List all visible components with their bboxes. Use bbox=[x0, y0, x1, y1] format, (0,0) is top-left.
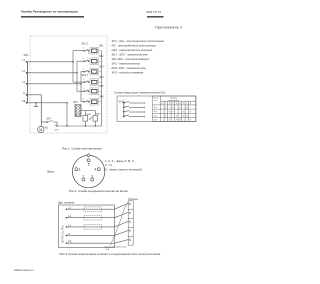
terminal L1 bbox=[22, 59, 27, 63]
node joints bbox=[35, 102, 96, 127]
switch SK5 bbox=[83, 88, 89, 92]
breaker QF1 bbox=[84, 207, 102, 212]
svg-text:1: 1 bbox=[83, 69, 85, 71]
svg-text:M: M bbox=[39, 128, 42, 132]
svg-text:3: 3 bbox=[88, 53, 90, 55]
svg-text:L1: L1 bbox=[22, 59, 25, 62]
plug body line bbox=[27, 62, 29, 104]
switch SK3 bbox=[83, 69, 89, 73]
wire phase L2 bbox=[27, 72, 78, 74]
switch SK1 bbox=[82, 43, 91, 55]
switch SK2 bbox=[83, 58, 89, 62]
svg-text:4: 4 bbox=[94, 168, 96, 172]
feeder wire N bbox=[67, 231, 129, 236]
terminal L3 bbox=[22, 81, 27, 85]
panel box bbox=[59, 205, 115, 248]
svg-text:1: 1 bbox=[83, 88, 85, 90]
svg-text:+: + bbox=[172, 110, 174, 113]
SA1 contact 1 bbox=[123, 102, 144, 104]
svg-text:Рис.3 Схема подключения розетк: Рис.3 Схема подключения розетки к стацио… bbox=[60, 252, 161, 256]
svg-text:Розетка: Розетка bbox=[128, 197, 138, 201]
feeder wire L2 bbox=[67, 212, 129, 217]
feeder wire L3 bbox=[67, 221, 129, 227]
wire neutral N bbox=[27, 95, 42, 127]
svg-text:1: 1 bbox=[79, 168, 81, 172]
terminal N bbox=[23, 92, 27, 96]
svg-text:Щит питания: Щит питания bbox=[58, 200, 75, 204]
svg-text:+: + bbox=[176, 115, 178, 118]
svg-text:+: + bbox=[190, 110, 192, 113]
capacitor KM2 bbox=[89, 111, 101, 126]
plug pin 1 bbox=[75, 168, 81, 172]
heater block EK1 bbox=[88, 44, 105, 54]
ground PE bbox=[34, 103, 39, 107]
svg-text:5х4: 5х4 bbox=[106, 249, 110, 251]
svg-text:3: 3 bbox=[91, 174, 93, 178]
svg-text:ХР3 - колодка клеммная: ХР3 - колодка клеммная bbox=[111, 71, 144, 75]
SA1 contact 4 bbox=[123, 115, 144, 117]
heater block EK3 bbox=[88, 65, 105, 75]
svg-text:положений: положений bbox=[169, 99, 179, 102]
socket strip bbox=[128, 201, 133, 245]
svg-text:ЩРН-П-12, IP31: ЩРН-П-12, IP31 bbox=[62, 225, 65, 243]
svg-text:Схема коммутации переключателя: Схема коммутации переключателя SA1 bbox=[114, 91, 166, 95]
switch SK6 bbox=[83, 99, 89, 103]
svg-text:1, 2, 3 - фазы А, В, С;: 1, 2, 3 - фазы А, В, С; bbox=[105, 159, 135, 163]
svg-text:5: 5 bbox=[88, 162, 90, 166]
svg-text:PE: PE bbox=[22, 100, 26, 103]
svg-text:5 - земля (желто-зеленый): 5 - земля (желто-зеленый) bbox=[105, 168, 142, 172]
breaker QF2 bbox=[84, 215, 102, 220]
svg-text:ЭК1-ЭК4 - электроконфорки: ЭК1-ЭК4 - электроконфорки bbox=[112, 57, 150, 61]
bus phase B vertical bbox=[77, 61, 84, 91]
table header bbox=[169, 98, 179, 102]
svg-text:L3: L3 bbox=[22, 81, 25, 84]
heater block EK5 bbox=[88, 85, 105, 95]
enclosure dashed boundary bbox=[30, 36, 107, 133]
switch SK4 bbox=[82, 74, 90, 83]
wire PE down bbox=[27, 102, 68, 104]
svg-text:Рис.1. Схема электрическая: Рис.1. Схема электрическая bbox=[62, 147, 102, 151]
svg-text:1: 1 bbox=[83, 99, 85, 101]
plug pin 5 bbox=[87, 159, 90, 167]
panel terminal N bbox=[66, 233, 71, 236]
junction dots phases bbox=[72, 61, 81, 84]
right return bus bbox=[57, 51, 102, 126]
bus phase A vertical bbox=[73, 51, 84, 82]
svg-text:+: + bbox=[165, 106, 167, 109]
terminal L2 bbox=[22, 70, 27, 74]
capacitor KM1 bbox=[83, 111, 92, 126]
header rule right bbox=[147, 16, 164, 18]
svg-text:М1 - центробежный вентилятор: М1 - центробежный вентилятор bbox=[112, 44, 157, 48]
wire cap top link bbox=[81, 110, 95, 112]
svg-text:+: + bbox=[186, 115, 188, 118]
SA1 stem dots bbox=[123, 102, 124, 117]
motor M1 bbox=[38, 126, 49, 132]
svg-text:3-4: 3-4 bbox=[154, 111, 158, 113]
thermal switch SK7 bbox=[41, 117, 58, 127]
connector XP3 bbox=[73, 101, 81, 116]
svg-text:КМ1: КМ1 bbox=[87, 114, 92, 116]
svg-text:+: + bbox=[172, 106, 174, 109]
plug pin 4 bbox=[94, 168, 100, 172]
wire phase L3 bbox=[27, 83, 81, 85]
svg-text:ХР1: ХР1 bbox=[24, 53, 29, 57]
svg-text:L2: L2 bbox=[22, 70, 25, 73]
svg-text:SA1: SA1 bbox=[119, 101, 124, 104]
svg-text:+: + bbox=[183, 115, 185, 118]
svg-text:SK1 - SK3 - переключатели: SK1 - SK3 - переключатели bbox=[112, 53, 149, 57]
heater block EK4 bbox=[88, 76, 105, 86]
header rule left bbox=[21, 16, 84, 18]
svg-text:SA1 - переключатель: SA1 - переключатель bbox=[112, 62, 141, 66]
svg-text:ЭК1: ЭК1 bbox=[99, 44, 104, 47]
svg-text:1-2: 1-2 bbox=[154, 107, 158, 109]
panel terminal L1 bbox=[66, 207, 72, 210]
svg-text:ХР1 - (Ш) - электровилка штепс: ХР1 - (Ш) - электровилка штепсельная bbox=[111, 39, 165, 43]
panel terminal L2 bbox=[66, 215, 72, 218]
svg-text:7-8: 7-8 bbox=[154, 120, 158, 122]
svg-text:Рис.2. Схема соединения контак: Рис.2. Схема соединения контактов вилки bbox=[69, 189, 128, 193]
svg-text:SK4.1: SK4.1 bbox=[82, 74, 89, 77]
table contacts col bbox=[153, 98, 159, 102]
svg-text:КМ2: КМ2 bbox=[96, 113, 101, 115]
svg-text:1: 1 bbox=[83, 58, 85, 60]
feeder wire PE bbox=[67, 240, 129, 244]
terminal PE bbox=[22, 100, 27, 104]
svg-text:БАЗ ТР 72: БАЗ ТР 72 bbox=[147, 10, 162, 14]
svg-text:Приложение 2: Приложение 2 bbox=[155, 26, 183, 30]
svg-text:СД1 - переключатель мощный: СД1 - переключатель мощный bbox=[112, 48, 153, 52]
SA1 contact 2 bbox=[123, 106, 144, 108]
plug pin 2 bbox=[82, 174, 85, 181]
svg-text:+: + bbox=[165, 115, 167, 118]
feeder wire L1 bbox=[67, 203, 129, 209]
svg-text:N: N bbox=[23, 92, 25, 95]
svg-text:М1: М1 bbox=[45, 127, 49, 130]
svg-text:kalibrcompany.ru: kalibrcompany.ru bbox=[14, 268, 34, 272]
breaker QF3 bbox=[84, 225, 102, 230]
panel terminal PE bbox=[66, 241, 72, 244]
table digits bbox=[162, 103, 192, 105]
heater block EK2 bbox=[88, 55, 105, 65]
svg-text:ХР2: ХР2 bbox=[55, 129, 60, 131]
plug key notch bbox=[87, 154, 90, 157]
wire phase L1 bbox=[27, 61, 75, 63]
svg-text:2: 2 bbox=[83, 174, 85, 178]
svg-text:Калибр Руководство по эксплуат: Калибр Руководство по эксплуатации bbox=[21, 10, 78, 14]
svg-text:1: 1 bbox=[83, 79, 85, 81]
svg-text:4 - N;: 4 - N; bbox=[105, 163, 113, 167]
cable label bbox=[105, 245, 128, 251]
svg-text:1: 1 bbox=[83, 48, 85, 50]
svg-text:кты: кты bbox=[154, 100, 158, 102]
svg-text:SK1.1: SK1.1 bbox=[82, 43, 89, 46]
plug face outline bbox=[72, 155, 104, 187]
plug pin 3 bbox=[91, 174, 94, 181]
SA1 contact 3 bbox=[123, 111, 144, 113]
table row labels bbox=[154, 107, 158, 122]
svg-text:5-6: 5-6 bbox=[154, 115, 158, 117]
cable leader curve bbox=[111, 203, 128, 246]
svg-text:+: + bbox=[186, 106, 188, 109]
bus phase C vertical bbox=[81, 72, 84, 102]
svg-text:+: + bbox=[169, 110, 171, 113]
svg-text:+: + bbox=[179, 106, 181, 109]
SA1 switch stem bbox=[123, 101, 125, 118]
panel terminal L3 bbox=[66, 224, 72, 227]
svg-text:SK7: SK7 bbox=[47, 117, 52, 120]
SA1 line end ticks bbox=[144, 102, 146, 118]
svg-text:Фазы: Фазы bbox=[47, 170, 54, 174]
table plus marks bbox=[165, 106, 192, 122]
SA1 box bbox=[117, 96, 196, 122]
svg-text:КМ1, КМ2 - конденсаторы: КМ1, КМ2 - конденсаторы bbox=[112, 66, 147, 70]
svg-text:+: + bbox=[183, 110, 185, 113]
table frame bbox=[153, 96, 196, 122]
svg-text:ХР3: ХР3 bbox=[73, 101, 78, 104]
heater block EK6 bbox=[88, 95, 105, 105]
